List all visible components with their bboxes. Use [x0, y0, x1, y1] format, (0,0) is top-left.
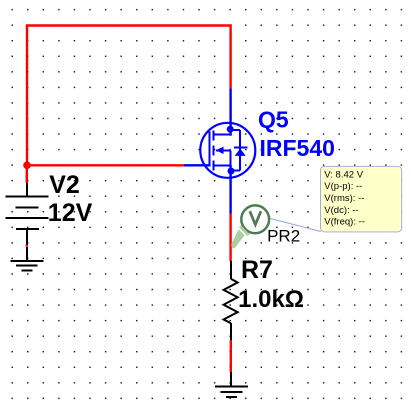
- svg-text:PR2: PR2: [267, 226, 300, 245]
- svg-text:V: 8.42 V: V: 8.42 V: [324, 169, 363, 180]
- svg-text:V(rms): --: V(rms): --: [324, 193, 364, 204]
- svg-text:12V: 12V: [48, 199, 93, 227]
- svg-text:Q5: Q5: [258, 107, 289, 133]
- svg-text:IRF540: IRF540: [260, 135, 335, 161]
- svg-text:V(p-p): --: V(p-p): --: [324, 181, 362, 192]
- svg-text:1.0kΩ: 1.0kΩ: [238, 286, 304, 313]
- svg-text:V2: V2: [49, 171, 80, 199]
- svg-text:V(freq): --: V(freq): --: [324, 217, 365, 228]
- svg-text:R7: R7: [241, 256, 273, 284]
- svg-text:V(dc): --: V(dc): --: [324, 205, 358, 216]
